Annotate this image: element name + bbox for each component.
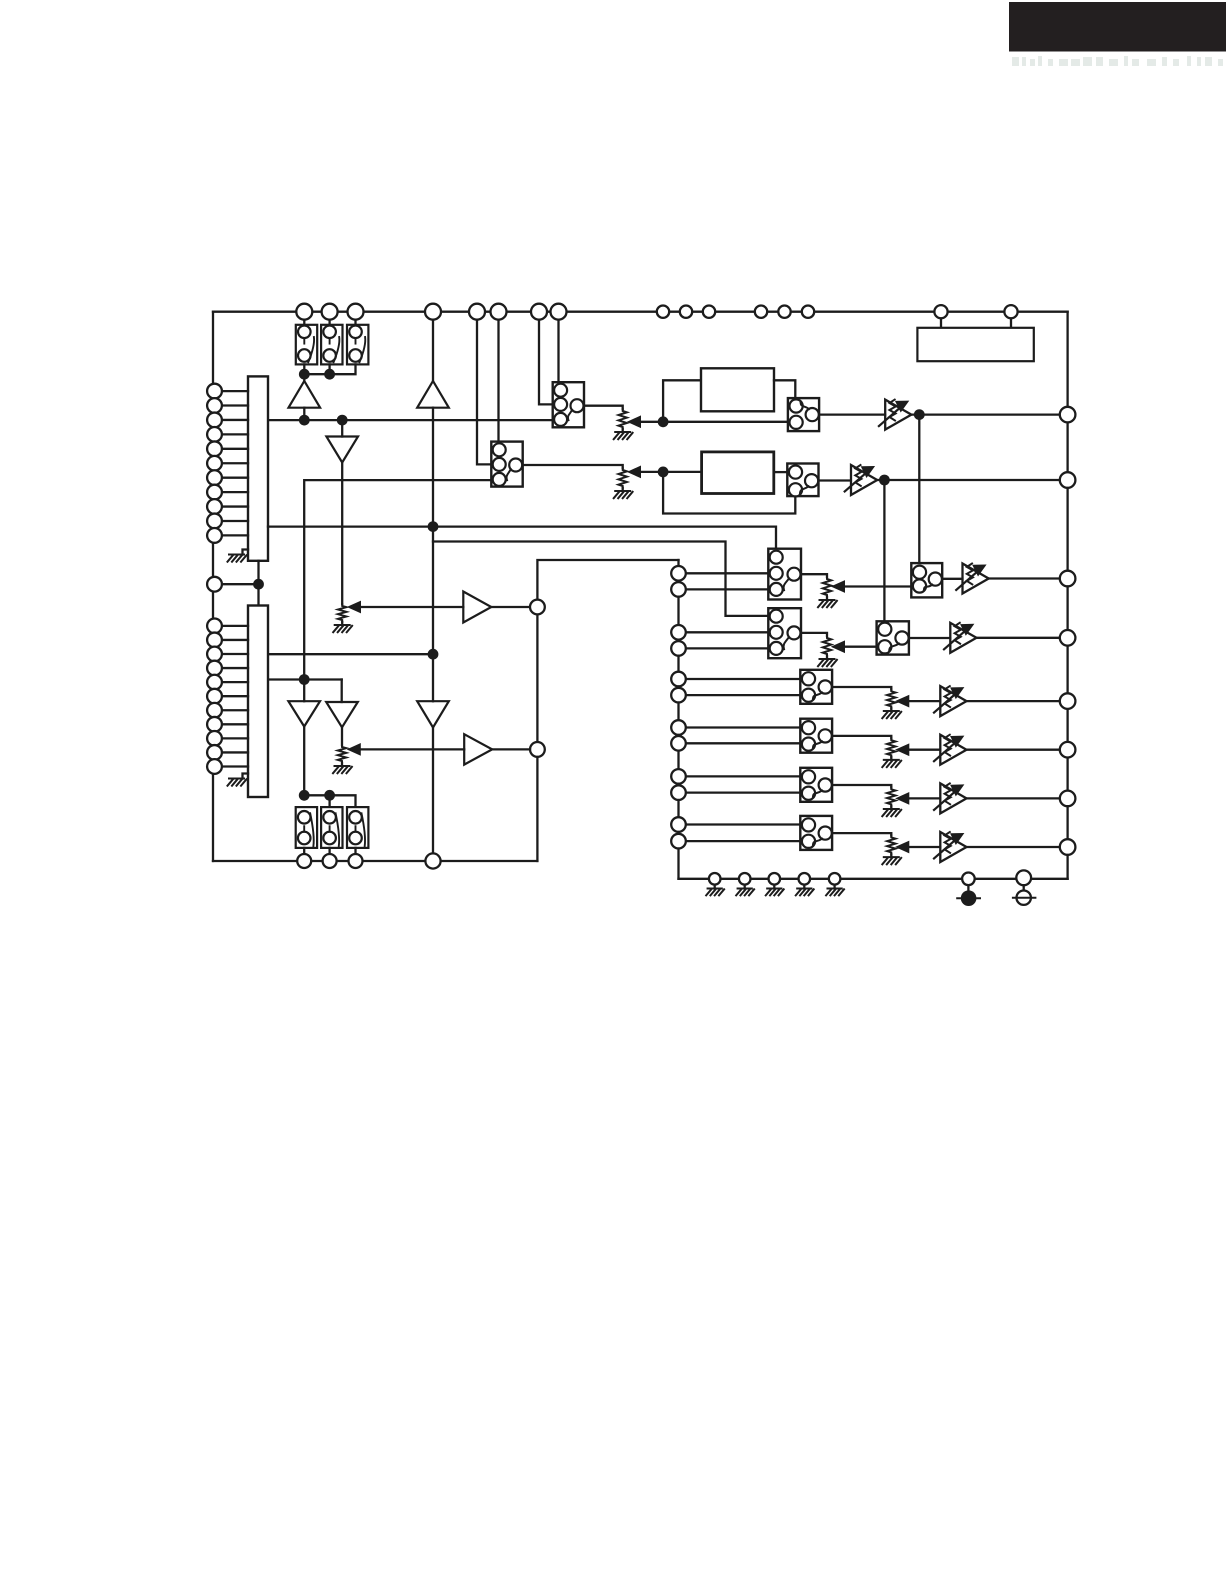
V+ terminal	[1017, 891, 1031, 905]
V- terminal	[961, 890, 977, 906]
pin U1-6	[222, 462, 249, 464]
pin left bus node	[222, 583, 255, 585]
pin A3 output	[530, 600, 545, 615]
wire R7 tap to G5	[896, 696, 909, 707]
junction node B	[658, 467, 669, 478]
pin U2-9	[222, 737, 249, 739]
pin column 2	[671, 582, 686, 597]
wire column feed 11	[679, 823, 801, 825]
pin U1-3	[222, 419, 249, 421]
control block U5	[917, 328, 1033, 361]
pin ground 4	[803, 884, 805, 889]
wire column feed 7	[679, 726, 801, 728]
pin top bus 6	[491, 304, 507, 320]
delay block U4	[702, 452, 774, 494]
wire buffer A3 output	[491, 606, 530, 608]
wire R4 tap to buffer A6	[348, 744, 361, 755]
resistor R6	[823, 636, 831, 656]
junction A4 rect2 pin	[428, 649, 439, 660]
wire S5 to G1	[819, 413, 885, 415]
pin top bus 5	[469, 304, 485, 320]
ground R7	[890, 708, 892, 711]
amplifier G2	[851, 465, 877, 495]
wire S6 to G2	[819, 479, 851, 481]
ground pin 1	[706, 889, 724, 896]
wire pin to switch S1 top input	[557, 319, 559, 383]
wire buffer A6 output	[492, 748, 530, 750]
wire column feed 8	[679, 742, 801, 744]
pin U1-2	[222, 404, 249, 406]
wire distribution vertical	[537, 560, 678, 861]
ground U1	[243, 550, 249, 555]
pin top bus 2	[322, 304, 338, 320]
pin top bus 10	[680, 306, 692, 318]
wire column feed 10	[679, 791, 801, 793]
wire node to relay K5	[328, 795, 330, 807]
wire B1 to relay node	[303, 727, 305, 796]
pin column 3	[671, 625, 686, 640]
wire pin49 to relay K1	[303, 319, 305, 325]
wire relay K4 to bus	[303, 848, 305, 855]
wire bottom-right ground bus	[679, 878, 1068, 880]
amplifier G7	[940, 783, 966, 813]
inverter A5	[417, 701, 449, 727]
wire U2 pin riser to switch S2	[304, 480, 491, 679]
pin U2-7	[222, 709, 249, 711]
switch S11	[800, 768, 832, 802]
resistor R8	[887, 738, 895, 757]
IC U1	[248, 376, 268, 560]
junction U1-U2 node	[253, 579, 264, 590]
switch S9	[800, 670, 832, 704]
pin top bus 3	[348, 304, 364, 320]
inverter B2	[326, 702, 358, 727]
pin top bus 15	[934, 305, 947, 318]
wire pin to buffer A4	[432, 319, 434, 382]
wire pin to switch S2 top input	[497, 319, 499, 442]
wire S4 output to R6	[801, 633, 827, 636]
ground pin 3	[766, 889, 784, 896]
ground R9	[890, 806, 892, 809]
ground R6	[826, 656, 828, 659]
wire left bus	[212, 312, 214, 861]
amplifier G5	[940, 686, 966, 716]
resistor R1	[619, 409, 627, 429]
pin U1-9	[222, 505, 249, 507]
relay K4	[296, 807, 317, 848]
wire S7 to G3	[942, 578, 962, 580]
ground R1	[622, 429, 624, 432]
junction relay K5 node	[324, 790, 335, 801]
wire tap to inverter A2	[341, 420, 343, 436]
wire U2 pin y679 to inverters	[268, 678, 342, 680]
wire U2 pin y654 to A4 chain	[268, 653, 433, 655]
pin U2-4	[222, 667, 249, 669]
amplifier G3	[963, 564, 989, 594]
wire relay K1 to node	[303, 364, 305, 374]
wire G4 to output pin	[976, 637, 1060, 639]
wire riser to S4 top	[433, 542, 768, 616]
wire G1 to output pin 42	[911, 413, 1060, 415]
pin U2-2	[222, 639, 249, 641]
wire pin47 to relay K3	[354, 319, 356, 325]
wire G2 to output pin 41	[877, 479, 1060, 481]
pin top bus 1	[296, 304, 312, 320]
wire right output bus	[1066, 312, 1068, 879]
pin column 6	[671, 688, 686, 703]
amplifier G8	[940, 832, 966, 862]
wire S3 output to R5	[801, 574, 827, 577]
faint header text remnants	[1012, 56, 1223, 66]
wire buffer A1 to line	[303, 408, 305, 420]
relay K5	[321, 807, 342, 848]
switch S3	[768, 549, 801, 600]
switch S5	[788, 398, 819, 431]
pin relay K4 bus	[297, 854, 311, 868]
wire R3 tap to buffer A3	[348, 601, 361, 612]
ground R5	[826, 597, 828, 600]
wire R6 tap to S8	[832, 641, 845, 652]
pin top bus 8	[551, 304, 567, 320]
wire relay node row	[304, 795, 355, 807]
wire A5 to bottom bus	[432, 728, 434, 862]
wire pin to switch S2 mid input	[477, 319, 491, 465]
switch S12	[800, 816, 832, 850]
pin output 35	[1060, 839, 1076, 855]
wire B2 to volume R4	[341, 727, 343, 745]
wire U4 to S6 top	[774, 471, 788, 473]
ground pin 2	[736, 889, 754, 896]
pin column 5	[671, 672, 686, 687]
wire A4 down chain	[432, 408, 434, 702]
wire S1 output to R1	[584, 406, 623, 409]
pin column 9	[671, 769, 686, 784]
pin output 41	[1060, 472, 1076, 488]
wire R5 tap to S7	[832, 581, 845, 592]
pin top bus 14	[802, 306, 814, 318]
wire column feed 9	[679, 775, 801, 777]
resistor R9	[887, 787, 895, 806]
resistor R3 volume	[338, 604, 346, 622]
switch S8	[877, 621, 909, 654]
pin U1-5	[222, 448, 249, 450]
pin output 38	[1060, 693, 1076, 709]
wire node A bypass	[663, 380, 701, 422]
amplifier G6	[940, 735, 966, 765]
buffer A6	[464, 734, 492, 764]
black header box	[1009, 2, 1226, 52]
pin output 36	[1060, 791, 1076, 807]
wire node to inverter B1	[303, 680, 305, 702]
wire R1 tap to node A	[628, 416, 641, 427]
pin U1-1	[222, 390, 249, 392]
amplifier G1	[885, 400, 911, 430]
resistor R5	[823, 577, 831, 597]
wire S12 output to R10	[832, 833, 891, 835]
wire top supply bus	[213, 311, 1068, 313]
pin V- supply	[967, 885, 969, 891]
pin U2-6	[222, 695, 249, 697]
pin top bus 11	[703, 306, 715, 318]
wire R8 tap to G6	[896, 744, 909, 755]
wire G7 to output pin	[966, 797, 1060, 799]
wire column feed 6	[679, 694, 801, 696]
pin top bus 13	[778, 306, 790, 318]
wire relay K2 to node	[328, 364, 330, 374]
relay K2	[321, 325, 342, 365]
pin top bus 4	[425, 304, 441, 320]
wire node B to U4	[663, 471, 702, 473]
pin U2-8	[222, 723, 249, 725]
resistor R10	[887, 835, 895, 854]
ground pin 5	[826, 889, 844, 896]
ground R2	[622, 488, 624, 491]
wire G2 to switch S8	[883, 480, 885, 621]
pin output 37	[1060, 742, 1076, 758]
pin relay K6 bus	[349, 854, 363, 868]
wire column feed 4	[679, 647, 769, 649]
inverter A2	[326, 437, 358, 463]
junction A1 tap	[299, 415, 310, 426]
pin A6 output	[530, 742, 545, 757]
wire bottom-left bus	[213, 860, 537, 862]
pin U2-5	[222, 681, 249, 683]
pin ground 3	[773, 884, 775, 889]
wire node A direct to S5	[663, 421, 788, 423]
wire node B bypass	[663, 472, 795, 514]
buffer A3	[463, 592, 491, 623]
switch S7	[911, 563, 942, 597]
wire column feed 5	[679, 678, 801, 680]
buffer A1	[289, 381, 321, 408]
switch S6	[787, 464, 818, 497]
pin output 42	[1060, 407, 1076, 423]
pin column 1	[671, 566, 686, 581]
wire S9 output to R7	[832, 687, 891, 689]
wire U3 to S5 top	[774, 380, 795, 398]
wire U1 pin to S3 top	[268, 527, 776, 549]
pin ground 2	[744, 884, 746, 889]
resistor R7	[887, 689, 895, 708]
pin U2-1	[222, 625, 249, 627]
wire column feed 12	[679, 840, 801, 842]
pin column 12	[671, 834, 686, 849]
junction A2 tap	[337, 415, 348, 426]
junction G1 output	[914, 409, 925, 420]
wire S2 output to R2	[523, 465, 623, 468]
pin U2-10	[222, 751, 249, 753]
wire column feed 1	[679, 572, 769, 574]
wire column feed 2	[679, 588, 769, 590]
ground U2	[243, 774, 249, 779]
pin A5 bus	[425, 853, 440, 868]
pin column 7	[671, 720, 686, 735]
wire corner to inverter B2	[341, 680, 343, 703]
pin relay K5 bus	[323, 854, 337, 868]
wire G5 to output pin	[966, 700, 1060, 702]
wire G3 to output pin	[989, 577, 1061, 579]
switch S2	[491, 442, 522, 487]
junction relay K4 node	[299, 790, 310, 801]
resistor R4 volume	[338, 745, 346, 763]
wire inverter A2 to volume R3	[341, 463, 343, 605]
pin U2-3	[222, 653, 249, 655]
switch S1	[553, 382, 584, 427]
pin U2-11	[222, 765, 249, 767]
pin column 8	[671, 736, 686, 751]
wire S8 to G4	[909, 637, 950, 639]
delay block U3	[701, 368, 774, 411]
pin top bus 12	[755, 306, 767, 318]
pin ground 5	[833, 884, 835, 889]
wire relay K6 to bus	[354, 848, 356, 855]
pin V+ supply	[1023, 885, 1025, 891]
wire node to buffer A1	[303, 374, 305, 381]
pin top bus 9	[657, 306, 669, 318]
pin U1-8	[222, 491, 249, 493]
wire pin48 to relay K2	[328, 319, 330, 325]
pin output 39	[1060, 630, 1076, 646]
relay K6	[347, 807, 368, 848]
wire U1 to U2	[257, 561, 259, 606]
switch S4	[768, 608, 801, 658]
buffer A4	[417, 381, 449, 408]
pin top bus 16	[1004, 305, 1017, 318]
pin U1-11	[222, 534, 249, 536]
wire R9 tap to G7	[896, 793, 909, 804]
wire pin to switch S1 mid input	[539, 319, 553, 405]
IC U2	[248, 606, 268, 798]
pin output 40	[1060, 571, 1076, 587]
junction U2 pin node	[299, 674, 310, 685]
switch S10	[800, 719, 832, 753]
wire G1 to switch S7	[918, 415, 920, 563]
wire control block stubs	[941, 318, 1011, 328]
ground R3	[341, 622, 343, 625]
wire G8 to output pin	[966, 846, 1060, 848]
wire R10 tap to G8	[896, 841, 909, 852]
wire relay K5 to bus	[328, 848, 330, 855]
pin column 10	[671, 785, 686, 800]
wire column feed 3	[679, 631, 769, 633]
wire U1 pin to switch S1	[268, 419, 553, 421]
relay K3	[347, 325, 368, 365]
ground R8	[890, 757, 892, 760]
resistor R2	[619, 468, 627, 488]
wire R2 tap to node B	[628, 466, 641, 477]
ground pin 4	[796, 889, 814, 896]
junction G2 output	[879, 475, 890, 486]
junction relay node 2	[324, 369, 335, 380]
junction A4 line A	[428, 521, 439, 532]
junction node A	[658, 416, 669, 427]
ground R4	[341, 763, 343, 766]
wire input column	[677, 560, 679, 879]
pin top bus 7	[531, 304, 547, 320]
pin ground 1	[714, 884, 716, 889]
wire S11 output to R9	[832, 785, 891, 787]
relay K1	[296, 325, 317, 365]
pin U1-10	[222, 520, 249, 522]
wire relay K3 to node	[304, 364, 355, 374]
wire S10 output to R8	[832, 736, 891, 738]
inverter B1	[288, 701, 320, 726]
pin U1-7	[222, 477, 249, 479]
ground R10	[890, 854, 892, 857]
wire G6 to output pin	[966, 749, 1060, 751]
pin column 4	[671, 641, 686, 656]
amplifier G4	[950, 623, 976, 653]
junction relay node 1	[299, 369, 310, 380]
pin U1-4	[222, 433, 249, 435]
pin column 11	[671, 817, 686, 832]
